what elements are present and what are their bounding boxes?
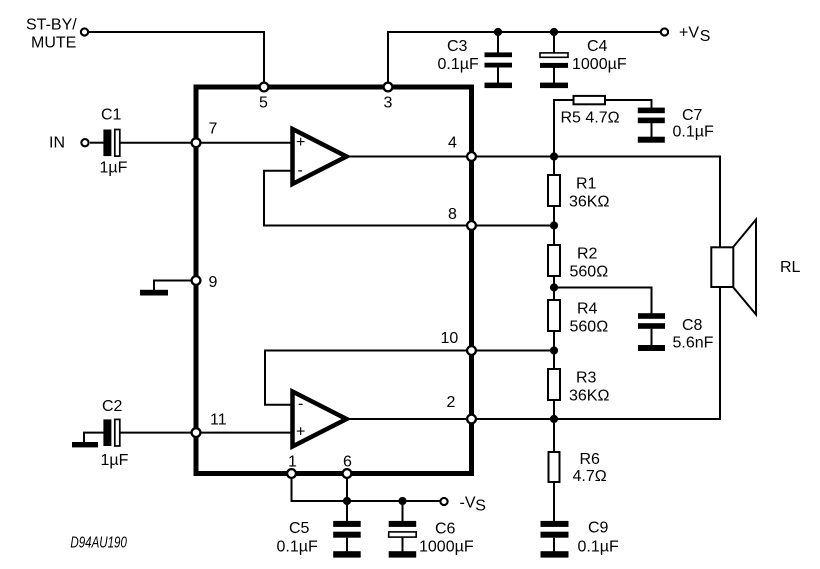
svg-text:R6: R6 [580, 451, 601, 468]
svg-text:R4: R4 [577, 301, 598, 318]
svg-text:D94AU190: D94AU190 [70, 535, 127, 552]
node ST-BY/MUTE label [26, 17, 77, 52]
svg-text:0.1µF: 0.1µF [673, 124, 714, 141]
wire R5 branch [554, 100, 652, 155]
capacitor C7 [638, 108, 665, 143]
svg-text:560Ω: 560Ω [570, 319, 609, 336]
svg-text:S: S [475, 498, 486, 515]
node IN label [49, 135, 65, 152]
svg-text:-V: -V [460, 495, 476, 512]
wire ST-BY/MUTE to pin 5 [89, 32, 264, 84]
svg-text:36KΩ: 36KΩ [569, 194, 609, 211]
svg-text:6: 6 [343, 454, 352, 471]
ground C2 [72, 442, 98, 447]
node C7 label [673, 107, 714, 141]
svg-text:C8: C8 [682, 317, 703, 334]
wire C7 stem [651, 123, 653, 137]
resistor R3 [548, 369, 560, 400]
node +Vs terminal [661, 28, 668, 35]
wire C3 stem [497, 32, 499, 83]
svg-text:+V: +V [679, 24, 699, 41]
svg-text:0.1µF: 0.1µF [277, 539, 318, 556]
svg-text:+: + [296, 134, 305, 151]
node R6 label [573, 451, 607, 485]
op-amp U1a [293, 129, 347, 184]
svg-text:C2: C2 [102, 398, 123, 415]
node pin 11 [192, 412, 227, 438]
node R2 label [570, 246, 609, 281]
node junction dot pin2 row [550, 415, 558, 423]
op-amp U1b [293, 392, 347, 447]
svg-text:1000µF: 1000µF [419, 539, 474, 556]
wire R3 to R6 [553, 400, 555, 452]
node junction dot pin4/R5/R1 [550, 152, 558, 160]
wire C5 stem [346, 501, 348, 551]
svg-text:11: 11 [210, 412, 227, 429]
svg-text:R5 4.7Ω: R5 4.7Ω [561, 110, 620, 127]
wire C8 branch [554, 288, 652, 315]
svg-text:RL: RL [780, 259, 801, 276]
svg-text:3: 3 [384, 95, 393, 112]
resistor R2 [548, 245, 560, 276]
svg-text:7: 7 [209, 121, 218, 138]
svg-text:C9: C9 [588, 520, 609, 537]
node pin 10 [441, 330, 476, 355]
svg-text:R1: R1 [576, 176, 597, 193]
svg-text:1µF: 1µF [100, 160, 128, 177]
wire pin 9 to ground [154, 281, 191, 291]
ground pin 9 [140, 290, 168, 296]
node pin 3 [384, 83, 393, 112]
node pin 8 [448, 206, 476, 230]
wire pin 10 row [475, 350, 554, 352]
node RL label [780, 259, 801, 276]
svg-text:-: - [298, 395, 303, 412]
wire +Vs rail from pin 3 [388, 32, 660, 85]
svg-text:0.1µF: 0.1µF [438, 56, 479, 73]
capacitor C6 [389, 521, 417, 558]
node R1 label [569, 176, 609, 211]
speaker RL [711, 220, 756, 315]
capacitor C5 [333, 521, 361, 558]
node junction dot C6 [398, 497, 406, 505]
svg-text:+: + [296, 423, 305, 440]
wire C8 stem [651, 329, 653, 345]
node -Vs terminal [440, 498, 447, 505]
svg-text:C5: C5 [289, 520, 310, 537]
node +Vs label [679, 24, 710, 45]
node schematic id D94AU190 [70, 535, 127, 552]
svg-text:C3: C3 [447, 38, 468, 55]
IC body U1 [196, 87, 472, 474]
wire op-amp1 feedback to pin 8 [264, 171, 468, 226]
wire op-amp1 output to pin 4 row and speaker [345, 157, 720, 250]
wire IN to pin 7 to op-amp [90, 142, 291, 144]
node pin 2 [447, 394, 476, 423]
svg-text:1: 1 [288, 454, 297, 471]
node pin 5 [259, 83, 268, 112]
wire C4 stem [553, 32, 555, 83]
svg-text:4.7Ω: 4.7Ω [573, 468, 607, 485]
svg-text:C4: C4 [587, 38, 608, 55]
svg-text:ST-BY/: ST-BY/ [26, 17, 77, 34]
node C4 label [572, 38, 627, 73]
node pin 6 [343, 454, 352, 478]
node ST-BY terminal [81, 28, 88, 35]
svg-text:S: S [700, 28, 711, 45]
wire R1 to R2 [553, 206, 555, 245]
svg-text:5: 5 [259, 95, 268, 112]
node C1 label [100, 107, 128, 177]
wire pin 1 / pin 6 to -Vs [292, 476, 440, 501]
node junction dot C4/+Vs [550, 28, 558, 36]
capacitor C4 [540, 53, 568, 88]
node -Vs label [460, 495, 486, 515]
capacitor C3 [485, 52, 513, 88]
wire op-amp2 output pin 2 row to speaker [345, 285, 720, 419]
capacitor C8 [638, 313, 665, 351]
wire C2 ground lead [84, 433, 104, 442]
capacitor C2 [103, 419, 119, 446]
svg-text:MUTE: MUTE [31, 35, 76, 52]
svg-text:8: 8 [448, 206, 457, 223]
wire C2 to pin 11 to op-amp2 [120, 432, 292, 434]
svg-text:C7: C7 [682, 107, 703, 124]
svg-text:5.6nF: 5.6nF [673, 335, 714, 352]
node pin 1 [287, 454, 297, 478]
resistor R1 [548, 175, 560, 206]
node R4 label [570, 301, 609, 336]
svg-text:36KΩ: 36KΩ [569, 388, 609, 405]
svg-text:IN: IN [49, 135, 65, 152]
svg-text:9: 9 [209, 274, 218, 291]
node C6 label [419, 521, 474, 556]
svg-text:0.1µF: 0.1µF [578, 539, 619, 556]
svg-text:10: 10 [441, 330, 459, 347]
node C5 label [277, 520, 318, 556]
svg-text:C1: C1 [101, 107, 122, 124]
node junction dot C3/+Vs [494, 28, 502, 36]
node C3 label [438, 38, 479, 73]
node junction dot C5 [343, 497, 351, 505]
node pin 7 [192, 121, 218, 148]
node C9 label [578, 520, 619, 556]
node R5 label [561, 110, 620, 127]
wire R2 to R4 [553, 276, 555, 300]
wire resistor chain column [553, 157, 555, 176]
svg-text:R3: R3 [576, 370, 597, 387]
svg-text:R2: R2 [577, 246, 598, 263]
node junction dot pin10 row [550, 346, 558, 354]
wire R6 to C9 [553, 482, 555, 521]
wire C9 stem [553, 538, 555, 552]
svg-text:560Ω: 560Ω [570, 264, 609, 281]
resistor R6 [549, 452, 560, 482]
node C8 label [673, 317, 714, 352]
node pin 4 [448, 135, 476, 161]
svg-text:4: 4 [448, 135, 457, 152]
node pin 9 [192, 274, 218, 291]
svg-text:1000µF: 1000µF [572, 56, 627, 73]
node junction dot pin8 row [550, 221, 558, 229]
svg-text:-: - [298, 162, 303, 179]
node C2 label [101, 398, 129, 469]
svg-text:2: 2 [447, 394, 456, 411]
resistor R5 [574, 96, 606, 104]
wire R4 to R3 [553, 331, 555, 369]
node IN terminal [81, 139, 88, 146]
resistor R4 [548, 300, 560, 331]
wire pin 8 row [475, 225, 554, 227]
node junction dot C8 branch [550, 283, 558, 291]
wire C6 stem [402, 501, 404, 551]
capacitor C1 [103, 130, 119, 157]
svg-text:C6: C6 [435, 521, 456, 538]
node R3 label [569, 370, 609, 405]
wire pin 10 feedback to op-amp2 [265, 351, 468, 405]
svg-text:1µF: 1µF [101, 452, 129, 469]
capacitor C9 [541, 521, 569, 558]
